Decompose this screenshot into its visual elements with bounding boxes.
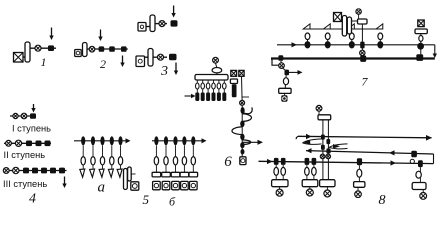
g8 drop5 wire down — [422, 190, 424, 193]
g8 bus line — [259, 161, 434, 163]
serpentine right loop 1 — [242, 114, 251, 122]
manifold drop 5 wire — [218, 80, 220, 93]
group3 row1 pump box — [138, 23, 146, 32]
g8 drop4 wire — [358, 165, 360, 181]
group4 stage1 valve a — [13, 113, 18, 118]
manifold drop 4 bead — [212, 93, 216, 102]
g8 pair2 bead 2 — [312, 158, 317, 165]
svg-text:3: 3 — [160, 64, 168, 79]
group-a header line with arrow — [74, 138, 131, 143]
g7 left drum — [279, 88, 291, 93]
group2 valve circle-x — [89, 46, 95, 52]
manifold drop 1 ring — [196, 83, 200, 89]
group-b drop 3 pump box — [172, 181, 180, 189]
group-b drop 2 tray — [162, 172, 171, 177]
g7 left stub elbow — [272, 58, 279, 66]
manifold drop 1 bead — [195, 93, 199, 102]
group-b drop 4 tray — [180, 172, 189, 177]
group4 stage2 bead 3 — [45, 141, 51, 147]
g7 left ring — [283, 78, 288, 85]
g7 valve 2 ring — [325, 33, 330, 40]
manifold drop 2 bead — [201, 93, 205, 102]
g7 left circle-x — [279, 63, 285, 69]
group-b drop 5 bead — [191, 136, 195, 145]
manifold drop 3 ring — [206, 83, 210, 89]
g7 circle-x below main line — [360, 50, 365, 55]
g7 valve 1 ring — [305, 33, 310, 40]
group4 stage1 line — [10, 115, 36, 117]
g7 main line flow arrow — [292, 42, 298, 47]
group-b drop 5 ring — [191, 157, 195, 165]
manifold drop 5 ring — [217, 83, 221, 89]
group-a drop 3 nozzle — [99, 169, 104, 177]
group-a drop 1 ring — [81, 157, 85, 165]
group3 row2 column — [148, 49, 153, 67]
group-a drop 5 ring — [118, 157, 122, 165]
g7 right bead on main line — [417, 43, 424, 50]
manifold drop 6 bead — [222, 93, 226, 102]
g8 drop5 bead — [418, 160, 423, 167]
group1 crossed-box apparatus — [14, 53, 24, 63]
serpentine bead D — [240, 142, 244, 148]
group-b drop 1 wire — [155, 145, 157, 172]
g8 drop5 wire — [419, 167, 421, 182]
g8 center leg2 bead 2 — [326, 148, 330, 153]
g8 center wire down — [326, 187, 328, 190]
group-b drop 2 ring — [164, 157, 168, 165]
serpentine bead C — [240, 134, 244, 140]
manifold drop 3 wire — [207, 80, 209, 93]
group-b drop 3 tray — [171, 172, 180, 177]
group3 row2 valve circle-x — [158, 54, 164, 60]
g7 right crossed-box — [418, 20, 424, 27]
g7 valve 3 bead — [349, 41, 355, 48]
group-b drop 2 pump box — [162, 181, 170, 189]
g7 right end vertical with down arrow — [433, 45, 437, 58]
g7 drum — [358, 19, 368, 24]
group3 row1 line — [155, 23, 167, 25]
g7 valve 2 wire — [327, 40, 329, 42]
serpentine outlet arrow — [242, 140, 263, 145]
svg-text:а: а — [98, 180, 106, 196]
group3 row1 arrow down — [171, 6, 175, 18]
wire box2 down — [241, 76, 244, 100]
group5 tick — [131, 173, 135, 175]
g8 upper long arrow — [296, 136, 298, 139]
g7 thick return line — [271, 57, 435, 59]
group-b drop 4 pump box — [181, 181, 189, 189]
g7 valve 1 bead — [305, 41, 311, 48]
g8 pair1 drum — [272, 180, 288, 187]
group4 stage3 valve b — [13, 167, 19, 173]
serpentine tick — [242, 96, 250, 98]
g7 top column 1 — [342, 16, 346, 37]
manifold drop 6 wire — [223, 80, 225, 93]
g7 right bead on thick line — [416, 54, 423, 61]
g7 valve 4 bead — [377, 41, 383, 48]
serpentine main wire — [241, 105, 243, 157]
serpentine left loop — [232, 127, 242, 135]
group1 inlet arrow down — [49, 28, 53, 41]
g8 drop4 bead — [357, 158, 362, 165]
g7 wire column-drum — [352, 20, 358, 22]
g8 circle on bus — [410, 159, 414, 163]
group-a drop 3 bead — [100, 136, 104, 145]
g7 wire box-column — [341, 19, 344, 21]
manifold drop 2 ring — [201, 83, 205, 89]
group2 column vessel — [83, 43, 88, 57]
g8 pair2 wire 1 — [306, 165, 308, 180]
g7 valve 1 wire — [307, 40, 309, 42]
group-a drop 5 bead — [118, 136, 122, 145]
group-a drop 2 bead — [91, 136, 95, 145]
group5 column bar 2 — [128, 167, 132, 181]
manifold drop 5 bead — [217, 93, 221, 102]
group-a drop 4 ring — [110, 157, 114, 165]
group1 bead — [48, 45, 54, 51]
g8 center leg2 bead 1 — [326, 139, 330, 144]
group-a drop 1 bead — [81, 136, 85, 145]
g7 left branch arrow — [289, 70, 303, 75]
g8 pair1 bead 1 — [274, 158, 279, 165]
g8 pair2 bead 1 — [305, 158, 310, 165]
g7 left pump — [281, 95, 287, 101]
group3 row1 valve circle-x — [159, 21, 165, 27]
g8 pair2 wire 2 — [313, 165, 315, 180]
g8 pair2 pump circle-x — [306, 189, 313, 196]
g8 pair1 wire down — [279, 187, 281, 190]
group4 stage1 arrow down — [31, 104, 35, 113]
g8 bus inlet arrow — [267, 159, 273, 164]
serpentine hook — [243, 107, 253, 113]
g8 pair1 bead 2 — [281, 158, 286, 165]
g7 valve 3 flag — [348, 24, 355, 29]
manifold drop 4 ring — [212, 83, 216, 89]
serpentine bead E — [241, 149, 245, 155]
serpentine bead A — [241, 107, 245, 114]
group4 stage1 valve b — [21, 113, 27, 119]
group-a drop 2 nozzle — [90, 169, 95, 177]
group-b drop 5 tray — [189, 172, 198, 177]
group1 wire line — [30, 47, 56, 49]
group2 wire line — [87, 48, 128, 50]
group4 stage3 bead 2 — [32, 168, 38, 174]
g8 leaf arrow right — [329, 144, 347, 149]
group-b drop 1 bead — [154, 136, 158, 145]
group-a drop 4 wire — [111, 145, 113, 169]
g8 lower return line — [306, 151, 434, 154]
g7 left bead on thick line — [278, 55, 283, 61]
g8 center leg 1 — [322, 120, 324, 180]
serpentine bottom pump box — [240, 157, 246, 165]
g7 valve 2 bead — [325, 41, 331, 48]
g8 center pump circle-x — [324, 190, 331, 197]
group3 row2 wire — [145, 56, 149, 58]
svg-text:7: 7 — [362, 75, 369, 89]
group4 stage3 line — [3, 170, 67, 172]
manifold drop 3 bead — [206, 93, 210, 102]
svg-text:6: 6 — [224, 154, 232, 170]
group4 stage3 valve a — [3, 168, 9, 174]
g8 center leg 2 — [327, 120, 329, 180]
g8 center leg2 circle-x — [326, 154, 331, 159]
group3 row2 arrow down — [174, 63, 178, 76]
group-b drop 1 tray — [152, 172, 161, 177]
g8 drop4 pump circle-x — [355, 191, 362, 198]
g7 top crossed-box — [334, 13, 342, 22]
g7 left wire valve-bead — [283, 68, 286, 70]
g7 valve 3 ring — [349, 33, 354, 40]
group4 stage2 line — [4, 142, 51, 144]
group2 pump box with circle — [75, 50, 82, 57]
g8 center top circle-x — [316, 105, 322, 111]
manifold inlet arrow — [185, 94, 196, 98]
g8 pair1 wire 1 — [275, 165, 277, 180]
serpentine valve circle-x — [240, 100, 245, 105]
svg-text:II ступень: II ступень — [4, 150, 46, 160]
group-b drop 4 ring — [182, 157, 186, 165]
svg-text:8: 8 — [379, 193, 386, 208]
group3 row2 bead — [169, 54, 177, 61]
g7 right downpipe — [420, 34, 422, 58]
g8 drop4 ring — [357, 169, 362, 177]
g7 bead on thick line at drum pipe — [360, 56, 366, 62]
group-a drop 4 bead — [110, 136, 114, 145]
group-a drop 3 ring — [100, 157, 104, 165]
g7 valve 1 flag — [303, 24, 310, 29]
manifold top wire — [216, 63, 217, 68]
group4 stage1 bead — [30, 113, 36, 118]
g8 drop4 wire down — [357, 187, 359, 191]
group3 row1 column — [150, 15, 155, 32]
serpentine bead B — [240, 121, 244, 127]
g8 right end vertical — [433, 154, 435, 164]
svg-text:III ступень: III ступень — [3, 179, 47, 189]
group-a drop 1 nozzle — [80, 169, 85, 177]
group1 wire box-column — [23, 56, 25, 58]
group2 bead 2 — [109, 46, 115, 51]
g8 pair2 ring 2 — [312, 167, 317, 175]
g7 drum downpipe — [361, 24, 363, 58]
group-b drop 4 bead — [182, 136, 186, 145]
group-b drop 3 bead — [173, 136, 177, 145]
svg-text:2: 2 — [100, 57, 106, 71]
g8 pair1 wire 2 — [282, 165, 284, 180]
g7 valve 4 wire — [379, 40, 381, 42]
manifold top valve circle-x — [213, 57, 219, 63]
g7 valve 2 flag — [323, 24, 330, 29]
group-b drop 2 wire — [165, 145, 167, 172]
g8 leaf arrow left — [303, 139, 322, 145]
group-a drop 1 wire — [82, 145, 84, 169]
g8 drop4 drum — [354, 182, 365, 188]
g8 center leg1 circle-x — [320, 154, 325, 159]
group4 outlet arrow down — [62, 177, 66, 189]
group3 row2 line — [153, 56, 167, 58]
svg-text:б: б — [169, 195, 176, 209]
g7 small circle-x above drum — [356, 9, 361, 14]
g8 center drum bottom — [320, 180, 335, 187]
g7 valve 4 flag — [376, 24, 383, 29]
group2 outlet arrow down — [120, 56, 124, 68]
group-b header line with arrow — [152, 138, 207, 143]
g7 upper line — [303, 28, 382, 30]
manifold drop 1 wire — [196, 80, 198, 93]
unit tray under box1 — [230, 79, 237, 84]
g7 left drum-pump wire — [284, 93, 286, 95]
g8 drop5 drum — [412, 183, 426, 190]
group1 column vessel — [25, 42, 30, 62]
g7 right drum — [415, 29, 427, 34]
group-a drop 4 nozzle — [108, 169, 113, 177]
group-b drop 1 ring — [154, 157, 158, 165]
group2 inlet arrow down — [98, 30, 102, 42]
group4 stage3 bead 5 — [59, 168, 65, 174]
g8 pair1 pump circle-x — [276, 189, 283, 196]
g8 bead on return line — [411, 151, 417, 158]
group5 pump box — [131, 182, 139, 190]
g8 drop5 ring — [416, 171, 421, 178]
g7 valve 3 wire — [351, 40, 353, 42]
group-a drop 5 nozzle — [117, 169, 122, 177]
g7 right ring — [419, 36, 423, 42]
g8 pair2 ring 1 — [305, 167, 310, 175]
serpentine right loop 2 — [242, 140, 250, 145]
group-b drop 3 ring — [173, 157, 177, 165]
manifold top oval — [212, 68, 222, 73]
unit crossed-box 2 — [239, 70, 244, 76]
group-b drop 5 pump box — [190, 181, 198, 189]
group3 row2 pump box — [136, 56, 145, 67]
manifold header — [195, 75, 228, 81]
g8 pair1 ring 2 — [281, 167, 286, 175]
g7 main line — [277, 44, 435, 46]
svg-text:I ступень: I ступень — [12, 123, 51, 133]
group-b drop 2 bead — [164, 136, 168, 145]
group4 stage3 bead 4 — [50, 168, 56, 174]
g8 center wire circle-drum — [318, 111, 320, 115]
group5 column bar 1 — [124, 169, 128, 190]
unit black bar — [232, 84, 237, 97]
g7 left downpipe — [285, 75, 286, 88]
unit crossed-box 1 — [231, 70, 237, 76]
manifold drop 6 ring — [223, 83, 227, 89]
group-b drop 1 pump box — [153, 181, 161, 189]
group4 stage2 bead 2 — [36, 141, 42, 147]
group-a drop 2 ring — [91, 157, 95, 165]
g8 center drum — [318, 115, 331, 120]
manifold drop 2 wire — [202, 80, 204, 93]
group2 bead 3 — [121, 46, 127, 51]
group4 stage3 bead 3 — [41, 168, 47, 174]
g8 pair2 drum — [302, 180, 318, 187]
group-a drop 5 wire — [120, 145, 122, 169]
group-a drop 3 wire — [102, 145, 104, 169]
group4 stage2 bead 1 — [26, 141, 32, 147]
g8 pair2 wire down — [309, 187, 311, 190]
g7 top column 2 — [347, 17, 351, 34]
group2 bead 1 — [99, 46, 105, 51]
g7 bead on main line at drum pipe — [360, 42, 364, 49]
manifold drop 4 wire — [213, 80, 215, 93]
group-a drop 2 wire — [92, 145, 94, 169]
manifold wire oval-header — [216, 73, 218, 75]
group-b drop 3 wire — [175, 145, 177, 172]
g8 drop5 pump circle-x — [420, 193, 427, 200]
g7 wire circle-drum — [358, 14, 360, 19]
group4 stage2 valve a — [6, 140, 12, 146]
group-b drop 5 wire — [192, 145, 194, 172]
svg-text:5: 5 — [143, 192, 150, 207]
g7 left junction bead — [285, 70, 290, 76]
g8 center leg1 bead 2 — [321, 145, 325, 150]
g8 bus mid arrow — [391, 160, 397, 165]
group1 valve circle-x — [35, 45, 41, 51]
svg-text:4: 4 — [29, 192, 36, 207]
group4 stage3 bead 1 — [23, 168, 29, 174]
group3 row1 bead — [171, 20, 178, 26]
g8 pair1 ring 1 — [274, 167, 279, 175]
group-b drop 4 wire — [183, 145, 185, 172]
g7 valve 4 ring — [378, 33, 383, 40]
group4 stage2 valve b — [15, 140, 21, 146]
g8 center leg1 bead 1 — [321, 135, 325, 140]
svg-text:1: 1 — [41, 55, 47, 69]
group3 row1 wire — [146, 26, 150, 28]
g7 left wire bead-valve — [280, 61, 283, 63]
